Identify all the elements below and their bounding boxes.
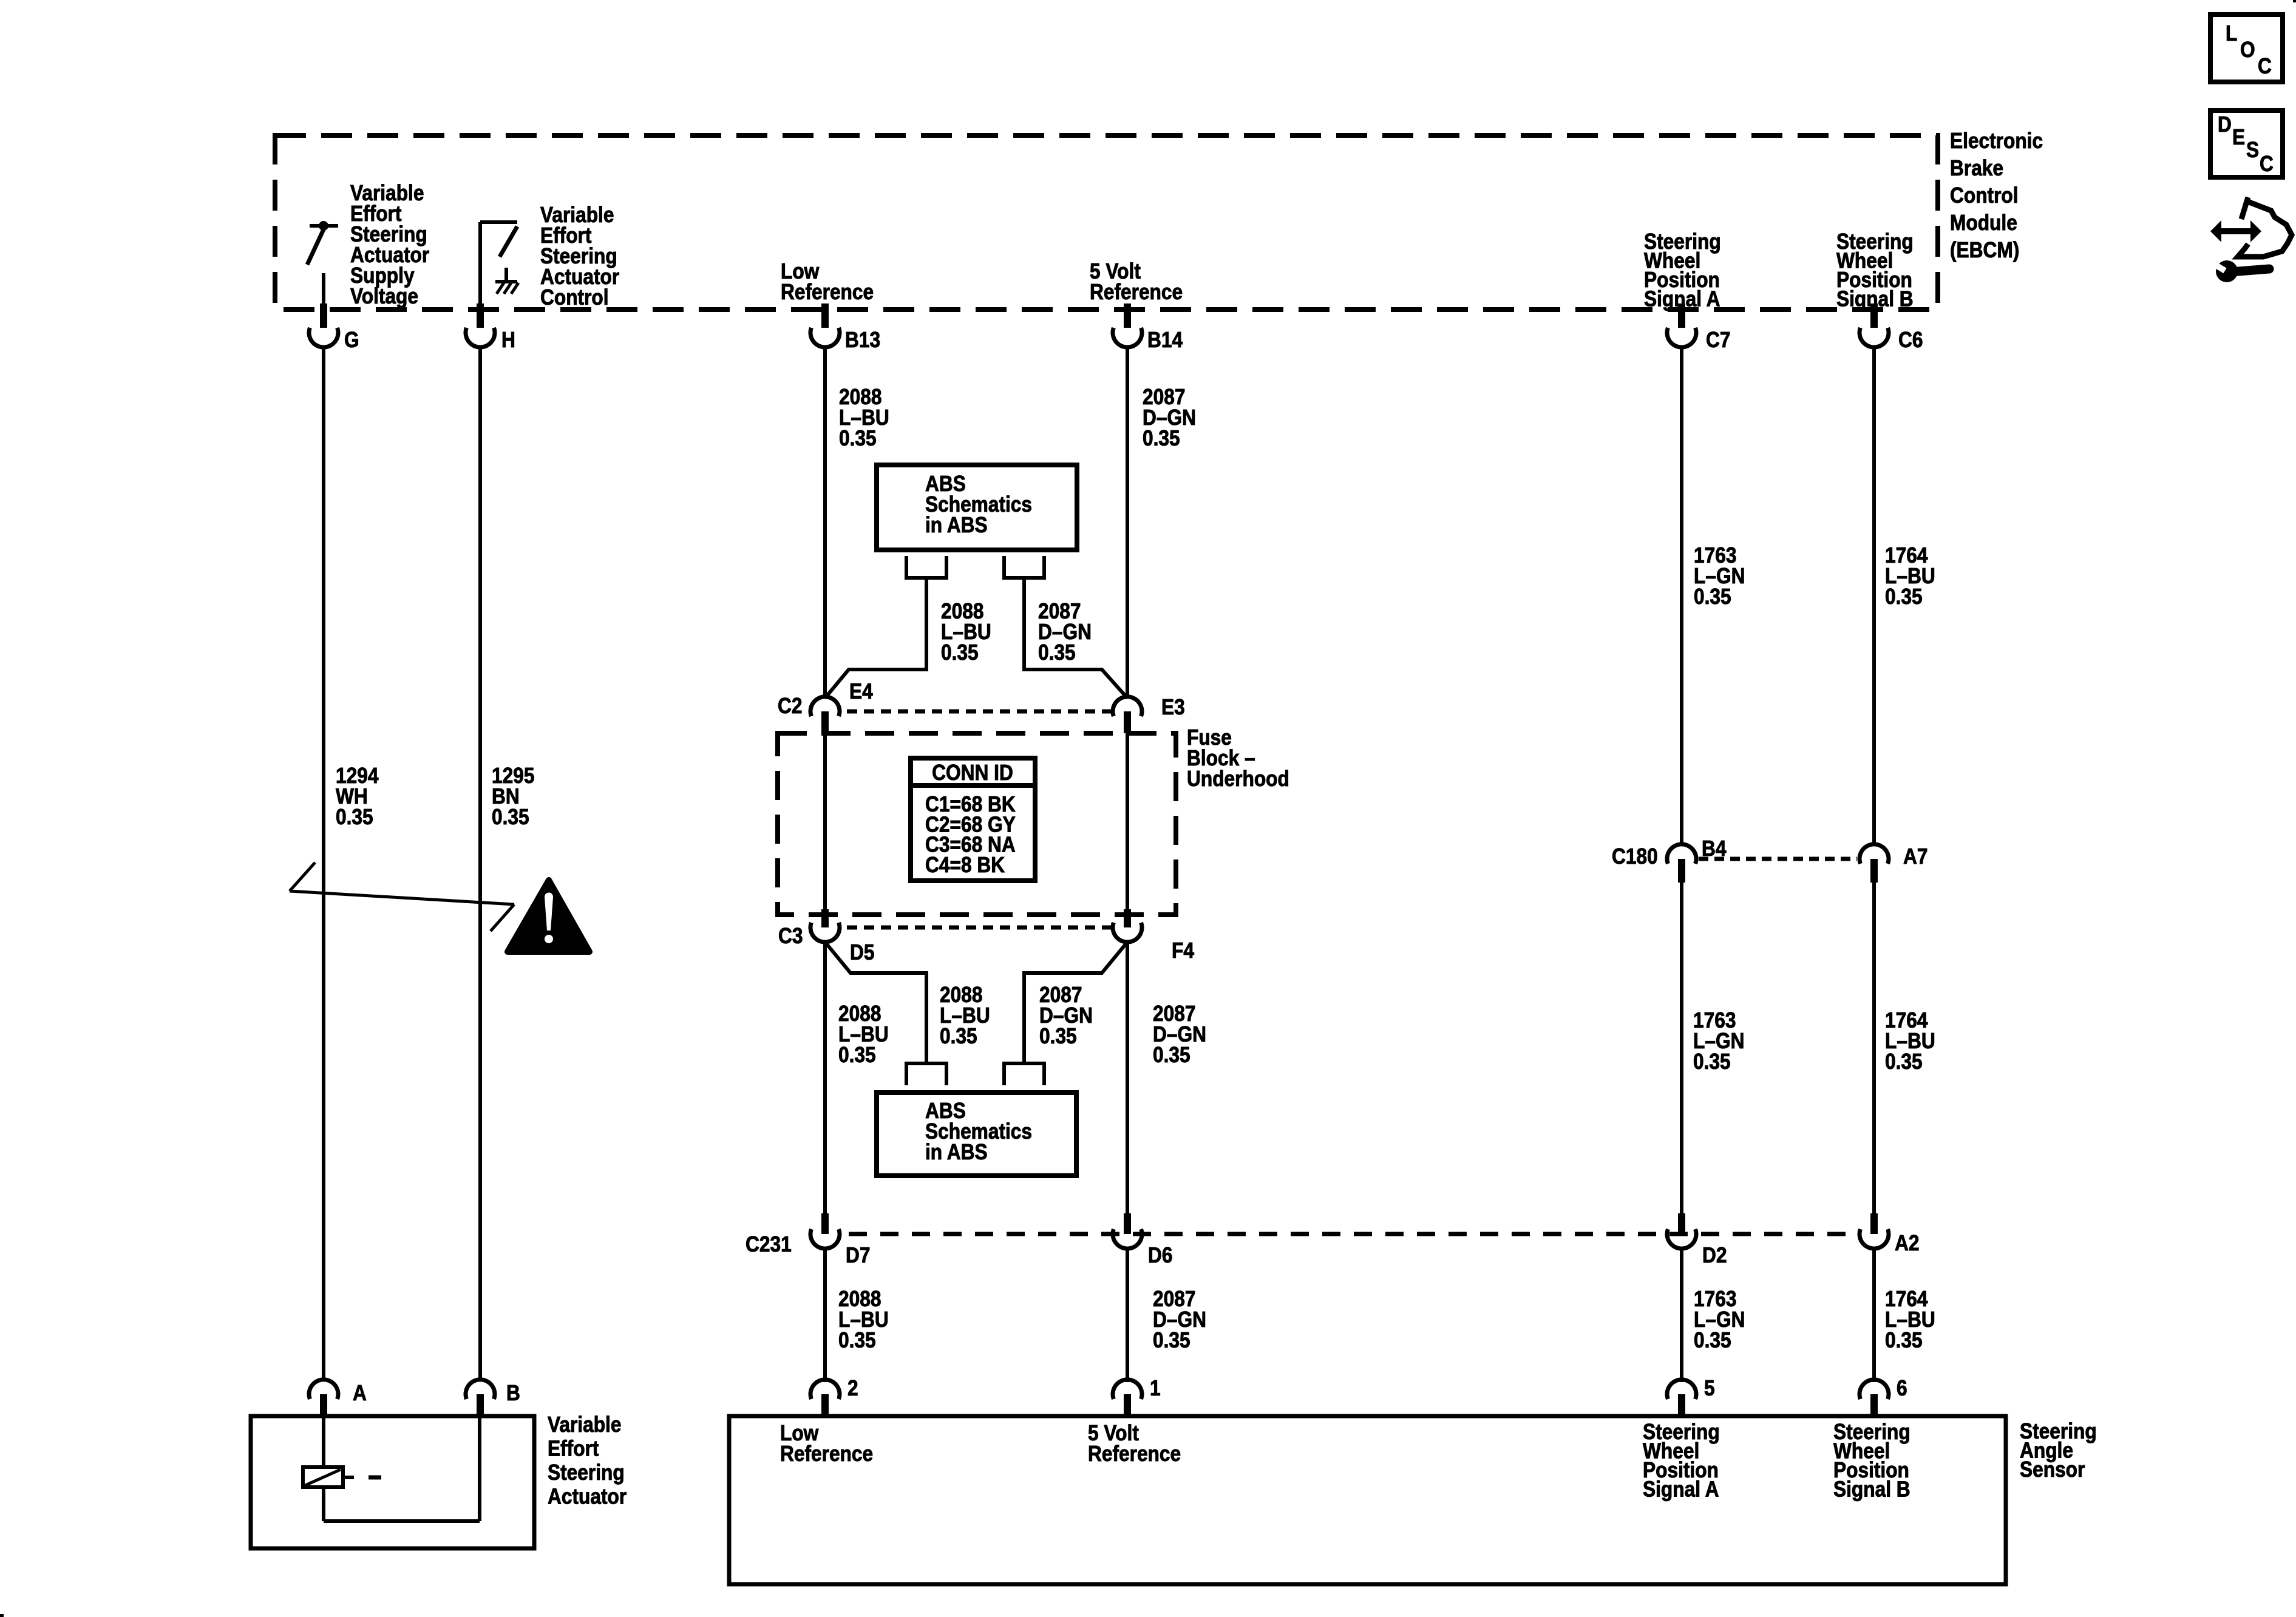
svg-text:0.35: 0.35	[940, 1024, 977, 1048]
svg-text:0.35: 0.35	[1038, 640, 1076, 665]
svg-text:Voltage: Voltage	[350, 284, 418, 308]
svg-text:C180: C180	[1612, 844, 1658, 869]
svg-text:Control: Control	[1950, 183, 2019, 208]
svg-text:Reference: Reference	[780, 1442, 873, 1466]
svg-text:C: C	[2258, 54, 2272, 78]
svg-text:Signal B: Signal B	[1833, 1477, 1911, 1502]
svg-text:Steering: Steering	[548, 1460, 625, 1485]
svg-text:D2: D2	[1702, 1243, 1727, 1267]
svg-text:A7: A7	[1903, 844, 1927, 869]
svg-text:A2: A2	[1895, 1231, 1919, 1255]
svg-text:O: O	[2240, 38, 2255, 62]
svg-text:S: S	[2246, 138, 2259, 162]
svg-text:B14: B14	[1147, 328, 1183, 352]
svg-text:0.35: 0.35	[1885, 1328, 1923, 1352]
svg-text:2: 2	[847, 1376, 858, 1400]
svg-text:0.35: 0.35	[1039, 1024, 1077, 1048]
svg-text:H: H	[501, 328, 515, 352]
svg-text:L: L	[2226, 21, 2237, 46]
svg-text:Control: Control	[540, 285, 609, 310]
svg-text:Electronic: Electronic	[1950, 129, 2043, 153]
svg-text:0.35: 0.35	[838, 1328, 876, 1352]
svg-text:G: G	[344, 328, 359, 352]
svg-text:6: 6	[1897, 1376, 1907, 1400]
svg-text:0.35: 0.35	[1694, 1328, 1731, 1352]
svg-text:0.35: 0.35	[1693, 1049, 1731, 1074]
svg-text:in ABS: in ABS	[925, 513, 988, 537]
svg-text:Effort: Effort	[548, 1437, 599, 1461]
svg-text:Reference: Reference	[781, 280, 874, 304]
svg-text:0.35: 0.35	[492, 805, 529, 829]
svg-text:Signal B: Signal B	[1836, 287, 1914, 311]
svg-text:Module: Module	[1950, 211, 2017, 235]
svg-text:0.35: 0.35	[941, 640, 979, 665]
svg-text:Signal A: Signal A	[1644, 287, 1720, 311]
svg-text:0.35: 0.35	[1143, 426, 1180, 450]
svg-text:D7: D7	[846, 1243, 870, 1267]
svg-text:Variable: Variable	[548, 1412, 621, 1437]
svg-text:A: A	[353, 1381, 367, 1405]
svg-text:0.35: 0.35	[1153, 1043, 1190, 1067]
svg-text:1: 1	[1150, 1376, 1161, 1400]
svg-text:Underhood: Underhood	[1187, 767, 1289, 791]
svg-text:Reference: Reference	[1088, 1442, 1181, 1466]
svg-text:B: B	[506, 1381, 520, 1405]
svg-text:C2: C2	[778, 694, 802, 718]
svg-text:E4: E4	[849, 679, 873, 703]
svg-text:E3: E3	[1161, 695, 1185, 719]
svg-text:D: D	[2218, 112, 2232, 137]
svg-text:C4=8 BK: C4=8 BK	[925, 853, 1005, 877]
svg-text:0.35: 0.35	[1153, 1328, 1190, 1352]
svg-text:D5: D5	[850, 940, 874, 964]
svg-text:C7: C7	[1706, 328, 1730, 352]
svg-text:0.35: 0.35	[838, 1043, 876, 1067]
svg-text:Brake: Brake	[1950, 156, 2003, 180]
svg-text:in ABS: in ABS	[925, 1140, 988, 1164]
svg-text:0.35: 0.35	[839, 426, 877, 450]
svg-text:D6: D6	[1148, 1243, 1172, 1267]
svg-text:F4: F4	[1172, 938, 1194, 963]
svg-text:E: E	[2232, 125, 2245, 149]
svg-text:CONN ID: CONN ID	[932, 761, 1013, 785]
svg-text:0.35: 0.35	[1885, 585, 1923, 609]
svg-text:0.35: 0.35	[1885, 1049, 1923, 1074]
svg-text:C231: C231	[746, 1232, 792, 1256]
svg-text:C3: C3	[778, 924, 803, 948]
svg-text:C6: C6	[1898, 328, 1923, 352]
svg-text:B4: B4	[1702, 836, 1727, 861]
svg-text:C: C	[2260, 152, 2274, 176]
svg-text:(EBCM): (EBCM)	[1950, 238, 2019, 262]
svg-text:0.35: 0.35	[1694, 585, 1731, 609]
svg-text:Sensor: Sensor	[2020, 1457, 2085, 1482]
svg-text:5: 5	[1704, 1376, 1715, 1400]
svg-text:Reference: Reference	[1090, 280, 1183, 304]
svg-text:Signal A: Signal A	[1643, 1477, 1719, 1502]
svg-text:Actuator: Actuator	[548, 1485, 627, 1509]
svg-text:B13: B13	[845, 328, 880, 352]
svg-text:0.35: 0.35	[336, 805, 373, 829]
